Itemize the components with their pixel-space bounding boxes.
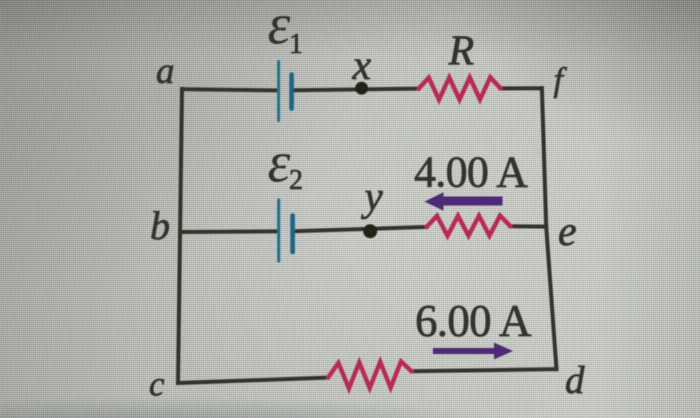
svg-text:c: c xyxy=(149,365,165,404)
svg-text:2: 2 xyxy=(289,165,303,196)
svg-text:d: d xyxy=(565,359,585,402)
svg-text:1: 1 xyxy=(289,29,303,60)
svg-text:a: a xyxy=(156,51,175,92)
svg-text:x: x xyxy=(352,43,372,89)
svg-text:6.00 A: 6.00 A xyxy=(415,296,532,346)
svg-text:4.00 A: 4.00 A xyxy=(414,148,528,197)
svg-text:R: R xyxy=(448,29,475,75)
svg-text:b: b xyxy=(150,203,170,248)
svg-text:e: e xyxy=(558,209,577,255)
svg-text:ε: ε xyxy=(268,130,291,195)
svg-text:y: y xyxy=(361,173,384,219)
svg-text:f: f xyxy=(554,62,568,99)
svg-text:ε: ε xyxy=(268,0,291,57)
